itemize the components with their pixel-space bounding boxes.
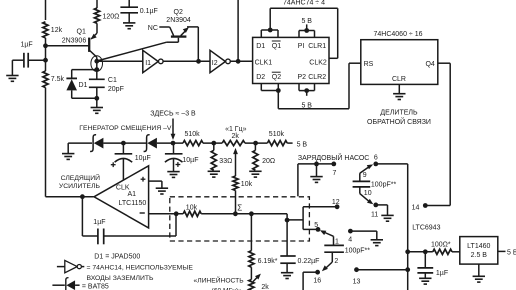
svg-text:6.19k*: 6.19k* (258, 258, 278, 265)
wire Q1 collector lead (90, 51, 97, 80)
potentiometer 2k 1Hz (222, 141, 245, 146)
wire CLK from cap (122, 159, 124, 181)
node junction 1uF cap (43, 58, 48, 63)
IC U1 74AHC74 box (253, 37, 329, 83)
svg-text:D2: D2 (256, 74, 265, 81)
svg-text:10: 10 (364, 190, 372, 197)
wire pump node2 (157, 142, 183, 144)
node pin12 (335, 204, 340, 209)
label 6.19k (258, 258, 278, 265)
pin label P2 (298, 74, 307, 81)
node 33ohm (211, 141, 216, 146)
opamp plus marker (141, 177, 146, 182)
resistor 120ohm (94, 8, 99, 23)
svg-text:16: 16 (313, 278, 321, 285)
svg-text:Q4: Q4 (425, 61, 434, 68)
wire pin4 ground (350, 231, 376, 240)
op-amp A1 LTC1150 (94, 166, 149, 228)
svg-text:LT1460: LT1460 (467, 243, 490, 250)
legend inverter symbol (57, 260, 84, 272)
label 510k second (269, 131, 285, 138)
capacitor 0.1uF (120, 0, 138, 23)
svg-text:7.5k: 7.5k (51, 76, 65, 83)
svg-text:Q2: Q2 (272, 74, 281, 81)
svg-text:D1: D1 (79, 82, 88, 89)
svg-text:СЛЕДЯЩИЙ: СЛЕДЯЩИЙ (61, 173, 100, 182)
svg-text:2.5 В: 2.5 В (471, 252, 488, 259)
svg-text:P2: P2 (298, 74, 307, 81)
svg-text:CLK2: CLK2 (309, 60, 327, 67)
ground 10uF pump2 (167, 172, 179, 178)
label LTC6943 (412, 224, 440, 231)
label 1Hz (225, 126, 247, 133)
ground input cap (6, 76, 18, 82)
wire collector to I1 (97, 60, 143, 62)
wire Q2bar to RS (278, 63, 361, 108)
capacitor 100pF second (324, 245, 344, 252)
node pump gnd (314, 162, 319, 167)
label 100ohm (431, 241, 451, 248)
node pin5 (316, 227, 321, 232)
node pin6 (373, 162, 378, 167)
wire Q4 out (425, 63, 450, 205)
svg-text:D1: D1 (256, 43, 265, 50)
ground 20ohm (249, 171, 261, 177)
label C1 (108, 77, 117, 84)
Q1 emitter arrow (91, 34, 97, 40)
svg-text:CLR1: CLR1 (308, 43, 326, 50)
ground 0.22uF (281, 273, 293, 279)
label 5V bottom (301, 102, 312, 109)
label 1uF input (21, 42, 33, 49)
wire top bracket P1 CLR1 (299, 31, 315, 38)
switch 2 (322, 252, 332, 271)
label 10k vert (241, 181, 253, 188)
label D1 (79, 82, 88, 89)
svg-text:I1: I1 (145, 60, 151, 67)
wire I2 to CLK1 (230, 60, 252, 62)
svg-text:2N3904: 2N3904 (166, 17, 191, 24)
label 74HC4060 div 16 (374, 31, 423, 38)
diode pump D3 schottky (144, 135, 157, 152)
svg-text:2N3906: 2N3906 (62, 37, 87, 44)
label legend inverter line2 (87, 275, 155, 282)
svg-text:5: 5 (314, 222, 318, 229)
label legend D1 (94, 254, 140, 261)
wire NC lead (159, 27, 173, 36)
probe ellipse (91, 56, 103, 72)
wire feedback loop to CLK2 (270, 8, 338, 58)
svg-text:ДЕЛИТЕЛЬ: ДЕЛИТЕЛЬ (380, 110, 418, 117)
svg-text:100pF**: 100pF** (345, 247, 371, 254)
dashed box integrator (170, 197, 310, 241)
resistor 10k sum (183, 211, 201, 216)
svg-text:10µF: 10µF (135, 155, 151, 162)
ground 33ohm (208, 171, 220, 177)
svg-text:LTC1150: LTC1150 (119, 200, 147, 207)
svg-text:RS: RS (364, 61, 374, 68)
wire 5V top stub (306, 24, 308, 30)
label 10k sum (186, 205, 198, 212)
node rail pin13 (405, 267, 410, 272)
svg-text:12: 12 (332, 199, 340, 206)
pin label 4 (348, 236, 352, 243)
label legend diode (82, 283, 109, 290)
node pin11 (373, 203, 378, 208)
node pin14 (423, 203, 428, 208)
svg-text:510k: 510k (185, 131, 201, 138)
wire 120ohm top stub (96, 0, 98, 8)
label LTC1150 (119, 200, 147, 207)
svg-text:Q2: Q2 (174, 9, 183, 16)
pin label Q1bar (272, 41, 281, 50)
svg-text:ЗДЕСЬ ≈ –3 В: ЗДЕСЬ ≈ –3 В (150, 111, 196, 118)
svg-text:74AHC74 ÷ 4: 74AHC74 ÷ 4 (283, 0, 325, 6)
svg-text:1µF: 1µF (436, 270, 448, 277)
label 1uF ref (436, 270, 448, 277)
label divider line1 (380, 110, 418, 117)
svg-text:ГЕНЕРАТОР СМЕЩЕНИЯ –V: ГЕНЕРАТОР СМЕЩЕНИЯ –V (79, 125, 172, 132)
wire bias row left end (68, 143, 92, 154)
wire pin13 to rail (357, 269, 408, 271)
svg-text:= BAT85: = BAT85 (82, 283, 109, 290)
wire pin16 down (303, 272, 318, 290)
ground plus input (156, 188, 168, 194)
wire 5V bias end (287, 142, 292, 144)
node junction base wire (43, 43, 48, 48)
svg-text:2: 2 (334, 258, 338, 265)
pin label 14 (412, 204, 420, 211)
svg-text:CLK1: CLK1 (255, 60, 273, 67)
IC U4 LT1460 box (460, 237, 498, 265)
label 5V bias (297, 142, 308, 149)
wire bottom bracket D2 Q2 (261, 84, 278, 91)
svg-text:CLR2: CLR2 (308, 74, 326, 81)
label follower line2 (59, 183, 101, 190)
pin label D2 (256, 74, 265, 81)
svg-text:11: 11 (371, 211, 378, 218)
pin label 11 (371, 211, 378, 218)
svg-text:5 В: 5 В (301, 18, 312, 25)
label sigma (237, 203, 242, 212)
resistor 100ohm (433, 249, 452, 254)
svg-text:20pF: 20pF (108, 86, 124, 93)
svg-text:12k: 12k (51, 27, 63, 34)
svg-text:«1 Гц»: «1 Гц» (225, 126, 247, 133)
svg-text:1µF: 1µF (93, 219, 105, 226)
wire Q1 base (46, 45, 89, 47)
resistor 510k second (267, 141, 287, 146)
pin label P1 (298, 43, 305, 50)
ground bias left (62, 154, 74, 160)
svg-text:2k: 2k (231, 133, 239, 140)
node 20ohm (253, 141, 258, 146)
resistor 10k vert (233, 176, 238, 214)
label I2 (212, 60, 218, 67)
wire 5V bottom stub (306, 91, 308, 96)
label A1 (128, 191, 137, 198)
svg-text:100pF**: 100pF** (371, 181, 397, 188)
pin label CLR (392, 76, 406, 83)
wire 6.19k branch (250, 214, 252, 251)
wire minus input (149, 213, 184, 215)
node minus3V (171, 141, 176, 146)
pin label 6 (374, 155, 378, 162)
svg-text:= 74AHC14, НЕИСПОЛЬЗУЕМЫЕ: = 74AHC14, НЕИСПОЛЬЗУЕМЫЕ (87, 264, 194, 271)
svg-text:LTC6943: LTC6943 (412, 224, 440, 231)
label 20pF (108, 86, 124, 93)
switch 1 (320, 230, 334, 245)
node pin16 (315, 270, 320, 275)
node sum cap branch (285, 218, 290, 223)
svg-text:510k: 510k (269, 131, 285, 138)
capacitor 1uF feedback (98, 229, 104, 245)
label here minus 3V (150, 111, 196, 118)
wire D1 bottom (72, 97, 97, 99)
label 2k pot1 (231, 133, 239, 140)
wire 5V ref out (498, 250, 506, 252)
svg-text:Q1: Q1 (77, 28, 86, 35)
label linearity line2 (212, 287, 243, 290)
node pin7 (331, 162, 336, 167)
wire pin6 to rail (376, 163, 408, 165)
svg-text:2k: 2k (261, 284, 269, 290)
wire pump gnd stub (316, 164, 318, 177)
pin label Q4 (425, 61, 434, 68)
wire LT1460 ground stub (478, 264, 480, 276)
arrowhead here (171, 134, 176, 140)
label 20ohm (262, 158, 275, 165)
diode D1 (66, 78, 77, 98)
svg-text:1µF: 1µF (21, 42, 33, 49)
ground pin11 (381, 215, 393, 221)
wire to 0.22uF (286, 220, 288, 256)
label 1uF feedback (93, 219, 105, 226)
svg-text:A1: A1 (128, 191, 137, 198)
pin label CLK1 (255, 60, 273, 67)
capacitor C1 (89, 79, 105, 107)
svg-text:5 В: 5 В (297, 142, 308, 149)
node bottom bracket (276, 88, 281, 93)
svg-text:5 В: 5 В (301, 102, 312, 109)
label LT1460 (467, 243, 490, 250)
svg-text:ОБРАТНОЙ СВЯЗИ: ОБРАТНОЙ СВЯЗИ (367, 117, 431, 126)
svg-text:ВХОДЫ ЗАЗЕМЛИТЬ: ВХОДЫ ЗАЗЕМЛИТЬ (87, 275, 155, 282)
opamp minus marker (140, 212, 145, 214)
pot 1Hz wiper arrow (233, 148, 238, 176)
wire 100ohm to box (452, 251, 460, 253)
svg-text:120Ω: 120Ω (103, 13, 120, 20)
wire Q2 emitter to node (197, 27, 199, 61)
svg-text:ЗАРЯДОВЫЙ НАСОС: ЗАРЯДОВЫЙ НАСОС (298, 153, 369, 162)
label Q2 (174, 9, 183, 16)
pin label RS (364, 61, 374, 68)
pin label Q2bar (272, 72, 281, 81)
svg-text:NC: NC (148, 25, 158, 32)
ground pin4 (371, 240, 383, 246)
capacitor 1uF ref (417, 252, 433, 278)
svg-text:C1: C1 (108, 77, 117, 84)
label NC (148, 25, 158, 32)
svg-text:6: 6 (374, 155, 378, 162)
wire to 20ohm node (245, 142, 268, 144)
svg-text:I2: I2 (212, 60, 218, 67)
legend diode symbol (52, 278, 79, 290)
inverter I2 (210, 50, 230, 72)
label I1 (145, 60, 151, 67)
wire sum to bracket (287, 219, 303, 221)
wire left rail top stub (45, 0, 47, 20)
node 5V bottom (304, 88, 309, 93)
svg-text:14: 14 (412, 204, 420, 211)
node opamp output (80, 194, 85, 199)
ground LT1460 (473, 276, 485, 282)
wire sum line (201, 214, 287, 220)
node D1 top junction (94, 67, 99, 72)
wire pin12 bracket (303, 207, 337, 230)
resistor 7.5k (43, 71, 48, 88)
wire pin11 ground (376, 205, 388, 216)
node pin4 (348, 229, 353, 234)
pin label 5 (314, 222, 318, 229)
label 10uF pump2 (182, 157, 198, 164)
label 510k first (185, 131, 201, 138)
ground pump (310, 177, 322, 183)
label 2N3904 (166, 17, 191, 24)
label 120ohm (103, 13, 120, 20)
svg-text:D1 = JPAD500: D1 = JPAD500 (94, 254, 140, 261)
switch 10 (360, 187, 374, 204)
wire pump pins row (298, 164, 334, 196)
node Q2 junction (196, 59, 201, 64)
node 5V top (304, 28, 309, 33)
svg-text:4: 4 (348, 236, 352, 243)
pin label 12 (332, 199, 340, 206)
label legend inverter line1 (87, 264, 194, 271)
wire plus input ground (149, 181, 162, 188)
resistor 20ohm (253, 143, 258, 170)
label charge pump (298, 153, 369, 162)
node Q1 collector (94, 59, 99, 64)
wire to 33ohm node (203, 142, 222, 144)
svg-text:10µF: 10µF (182, 157, 198, 164)
ground CLR (393, 94, 405, 100)
label 7.5k (51, 76, 65, 83)
svg-text:CLR: CLR (392, 76, 406, 83)
pin label 7 (333, 170, 337, 177)
node rail ref (405, 249, 410, 254)
svg-text:Σ: Σ (237, 203, 242, 212)
label Q1 (77, 28, 86, 35)
pin label CLK2 (309, 60, 327, 67)
wire CLR ground stub (398, 84, 400, 93)
ground C1 (91, 108, 103, 114)
label 5V ref (507, 249, 516, 256)
label linearity line1 (194, 275, 245, 284)
pin label 13 (353, 278, 361, 285)
svg-text:5 В: 5 В (507, 249, 516, 256)
node sum 6.19k (249, 211, 254, 216)
node sum 10k vert (233, 211, 238, 216)
label 74AHC74 div 4 (283, 0, 325, 6)
svg-text:УСИЛИТЕЛЬ: УСИЛИТЕЛЬ (59, 183, 101, 190)
wire left rail lower (46, 88, 94, 197)
wire CLK1 riser (237, 0, 239, 61)
wire rail to 100ohm (408, 251, 433, 253)
label 12k (51, 27, 63, 34)
IC U2 74HC4060 box (361, 40, 438, 85)
wire here arrow (172, 119, 174, 136)
plus pump2 (176, 162, 181, 167)
node C1 bottom junction (94, 96, 99, 101)
wire Q2 base lead (97, 38, 178, 61)
pin label D1 (256, 43, 265, 50)
wire main rail right (407, 164, 409, 290)
pin label CLR1 (308, 43, 326, 50)
Q2 emitter arrow (183, 27, 189, 33)
svg-text:20Ω: 20Ω (262, 158, 275, 165)
label bias generator (79, 125, 172, 132)
pin label 9 (363, 172, 367, 179)
wire 10uF pump2 ground stub (173, 159, 175, 172)
capacitor 100pF first (353, 181, 371, 187)
svg-text:PI: PI (298, 43, 305, 50)
label divider line2 (367, 117, 431, 126)
wire 6.19k to pot (250, 267, 252, 279)
svg-text:7: 7 (333, 170, 337, 177)
node pump1 (121, 141, 126, 146)
pot linearity wiper arrow (253, 274, 261, 282)
wire Q2 emitter lead (181, 27, 199, 36)
label 100pF first (371, 181, 397, 188)
transistor Q2 base bar (171, 35, 187, 37)
wire bottom bracket P2 CLR2 (299, 84, 315, 91)
capacitor 10uF pump2 (165, 143, 183, 162)
label 2.5V (471, 252, 488, 259)
label 2k pot2 (261, 284, 269, 290)
inverter I1 (143, 50, 163, 72)
node top bracket (268, 28, 273, 33)
wire top bracket D1 Q1 (261, 30, 278, 37)
wire I1 to I2 (163, 60, 210, 62)
svg-text:10k: 10k (241, 181, 253, 188)
node pin13 (354, 267, 359, 272)
svg-text:«ЛИНЕЙНОСТЬ: «ЛИНЕЙНОСТЬ (194, 275, 245, 284)
svg-text:74HC4060 ÷ 16: 74HC4060 ÷ 16 (374, 31, 423, 38)
svg-text:0.22µF: 0.22µF (298, 258, 320, 265)
node minus input (174, 211, 179, 216)
potentiometer 2k linearity (249, 280, 254, 290)
node CLK1 junction (236, 59, 241, 64)
svg-text:9: 9 (363, 172, 367, 179)
svg-text:13: 13 (353, 278, 361, 285)
svg-text:Q1: Q1 (272, 43, 281, 50)
switch 9 (360, 164, 373, 181)
wire left rail upper (45, 38, 47, 71)
label follower line1 (61, 173, 100, 182)
pin label 16 (313, 278, 321, 285)
pin label 10 (364, 190, 372, 197)
label CLK (116, 184, 130, 191)
wire feedback (82, 197, 176, 236)
label 10uF pump1 (135, 155, 151, 162)
label 100pF second (345, 247, 371, 254)
diode pump D2 schottky (90, 135, 103, 152)
svg-text:100Ω*: 100Ω* (431, 241, 451, 248)
svg-text:1: 1 (335, 238, 339, 245)
wire pump node1 (103, 142, 146, 144)
ground 1uF ref (419, 278, 431, 284)
